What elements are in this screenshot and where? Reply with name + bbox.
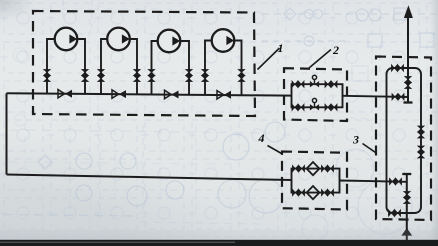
wire lower header	[7, 175, 292, 181]
pump P3	[158, 30, 181, 53]
wire drain column	[406, 174, 408, 242]
valve ring right upper	[417, 126, 425, 139]
valve riser upper	[404, 76, 412, 89]
svg-text:2: 2	[332, 43, 339, 57]
wire filters to column	[340, 181, 407, 182]
wire meters to column	[343, 96, 409, 97]
check valve under P2	[112, 90, 126, 98]
valve ring top	[391, 64, 404, 72]
wire pump P4 suction	[205, 41, 213, 95]
wire riser upper	[407, 16, 409, 103]
svg-text:4: 4	[258, 131, 265, 145]
label 2 leader	[309, 50, 331, 69]
valve ring bottom	[388, 209, 401, 217]
enclosure 1 (pump station dashed box)	[33, 11, 255, 116]
filter top	[307, 162, 320, 175]
pump P1	[55, 28, 78, 51]
valve ring right lower	[417, 146, 425, 159]
enclosure 2 (flow meters dashed box)	[284, 68, 347, 121]
valve drain	[403, 191, 411, 204]
valve on P1 discharge	[81, 69, 89, 82]
wire pump P1 discharge	[77, 39, 86, 94]
arrow to drain	[401, 228, 412, 236]
wire pump P3 discharge	[180, 41, 190, 95]
valve filter top right	[321, 164, 334, 172]
valve on P2 discharge	[133, 69, 141, 82]
valve meter top right	[325, 80, 338, 88]
valve filter bottom right	[321, 188, 334, 196]
valve meter top left	[292, 80, 305, 88]
valve meter line	[392, 93, 405, 101]
valve filter bottom left	[292, 188, 305, 196]
valve on P3 suction	[147, 69, 155, 82]
node meter loop	[292, 84, 343, 107]
cap riser upper	[404, 101, 413, 103]
svg-text:1: 1	[278, 41, 284, 55]
wire suction manifold	[7, 93, 292, 95]
check valve under P1	[58, 90, 72, 98]
check valve under P4	[217, 91, 231, 99]
valve on P3 discharge	[185, 69, 193, 82]
enclosure 4 (filters dashed box)	[282, 152, 347, 210]
cap drain upper	[402, 173, 411, 175]
check valve under P3	[165, 90, 179, 98]
pump P2	[107, 28, 130, 51]
enclosure 3 (riser unit dashed box)	[376, 57, 431, 221]
wire left riser	[6, 93, 8, 174]
valve on P4 suction	[201, 69, 209, 82]
valve filter top left	[292, 164, 305, 172]
valve on P2 suction	[97, 69, 105, 82]
flow meter top	[310, 75, 319, 87]
flow meter bottom	[310, 98, 319, 110]
wire pump P2 discharge	[129, 39, 137, 94]
pump P4	[212, 29, 235, 52]
label 3 leader	[363, 144, 376, 153]
label 1 leader	[258, 48, 280, 70]
filter bottom	[307, 186, 320, 199]
wire pump P4 discharge	[234, 41, 242, 96]
svg-text:3: 3	[352, 133, 359, 147]
valve meter bottom left	[292, 103, 305, 111]
valve filter line	[389, 177, 402, 185]
label 4 leader	[268, 146, 282, 154]
node filter loop	[292, 169, 340, 193]
wire pump P1 suction	[47, 39, 56, 94]
valve on P1 suction	[43, 69, 51, 82]
node bypass ring	[387, 68, 422, 213]
arrow to system	[404, 5, 413, 18]
wire pump P2 suction	[101, 39, 108, 94]
wire pump P3 suction	[152, 41, 159, 94]
valve on P4 discharge	[237, 69, 245, 82]
valve meter bottom right	[325, 103, 338, 111]
